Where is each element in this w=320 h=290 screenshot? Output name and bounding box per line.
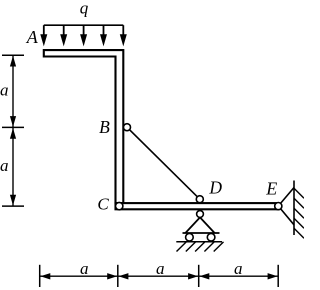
svg-text:a: a bbox=[0, 156, 8, 175]
svg-text:B: B bbox=[99, 117, 110, 137]
svg-text:C: C bbox=[97, 195, 109, 214]
svg-text:a: a bbox=[0, 81, 8, 100]
svg-text:a: a bbox=[80, 259, 89, 278]
svg-text:a: a bbox=[234, 259, 243, 278]
svg-text:a: a bbox=[156, 259, 165, 278]
svg-text:A: A bbox=[26, 27, 39, 47]
svg-text:q: q bbox=[80, 0, 89, 18]
svg-text:D: D bbox=[208, 178, 222, 198]
svg-text:E: E bbox=[265, 179, 277, 199]
